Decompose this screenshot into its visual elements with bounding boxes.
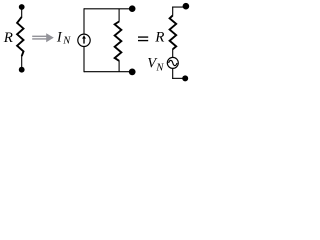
wire: parallel resistor branch lower <box>118 61 120 72</box>
implies arrow (gray) <box>32 33 54 42</box>
wire: top horizontal <box>84 8 131 10</box>
wire: parallel resistor branch upper <box>118 9 120 22</box>
svg-text:N: N <box>155 63 164 74</box>
resistor R (right zigzag) <box>170 16 177 50</box>
wire: bottom horizontal <box>84 71 131 73</box>
current source arrow (up) <box>83 38 85 44</box>
resistor (Norton parallel zigzag) <box>115 22 122 61</box>
wire: top vertical <box>172 7 174 16</box>
svg-text:N: N <box>62 36 71 47</box>
svg-text:I: I <box>56 30 63 46</box>
node: middle bottom terminal dot <box>129 69 136 76</box>
wire: current source branch lower <box>83 46 85 72</box>
wire: bottom stem of R <box>21 56 23 68</box>
wire: stem between R and source <box>172 49 174 57</box>
wire: top horizontal to terminal <box>172 6 184 8</box>
node: top terminal dot <box>19 4 25 10</box>
voltage source V_N circle <box>167 57 178 68</box>
node: right bottom terminal dot <box>182 75 188 81</box>
wire: stem below source <box>172 68 174 79</box>
equals sign <box>138 36 148 41</box>
wire: bottom horizontal to terminal <box>172 77 184 79</box>
wire: current source branch upper <box>83 8 85 34</box>
svg-text:R: R <box>3 30 13 46</box>
sine wave inside V_N <box>169 60 177 65</box>
wire: top stem of R <box>21 9 23 18</box>
node: bottom terminal dot <box>19 67 25 73</box>
node: right top terminal dot <box>183 3 190 10</box>
current source I_N circle <box>78 34 90 46</box>
resistor R (left zigzag) <box>17 17 23 56</box>
svg-text:R: R <box>154 30 164 46</box>
node: middle top terminal dot <box>129 5 136 12</box>
